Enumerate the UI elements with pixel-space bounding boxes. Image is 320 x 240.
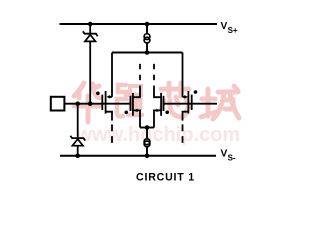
svg-text:V: V	[221, 21, 228, 32]
char qiang	[117, 85, 142, 116]
transistor Q4 (outer right)	[183, 53, 198, 143]
junction dot input/D1	[88, 101, 93, 106]
svg-text:S+: S+	[228, 26, 238, 35]
char cheng	[201, 86, 239, 119]
junction dot bus/I1	[145, 50, 150, 55]
current source I1 (top)	[144, 25, 150, 52]
input terminal square	[51, 97, 65, 111]
watermark chinese characters (background)	[74, 83, 239, 122]
label VS-	[221, 149, 236, 163]
drain bus wire	[112, 52, 183, 54]
label VS+	[221, 21, 238, 35]
junction dot rail-/D2	[75, 154, 80, 159]
junction dot common source	[145, 125, 150, 130]
junction dot input/D2	[75, 101, 80, 106]
input gate wire (to Q1,Q2 gates)	[65, 103, 131, 105]
zener diode D1 (input to VS+)	[83, 25, 98, 104]
svg-text:S-: S-	[228, 153, 236, 162]
negative supply rail VS-	[60, 155, 216, 157]
char hua	[74, 83, 100, 122]
svg-text:V: V	[221, 149, 228, 160]
svg-text:www.hqchip.com: www.hqchip.com	[76, 124, 241, 146]
junction dot rail/I1	[145, 22, 150, 27]
transistor Q1 (outer left)	[96, 53, 112, 143]
wire common source to I2	[146, 128, 148, 140]
junction dot rail/D1	[88, 22, 93, 27]
zener diode D2 (input to VS-)	[70, 104, 85, 156]
current source I2 (bottom)	[144, 139, 150, 156]
junction dot rail-/I2	[145, 154, 150, 159]
common source bar	[140, 127, 154, 129]
positive supply rail VS+	[60, 23, 218, 25]
svg-text:CIRCUIT 1: CIRCUIT 1	[136, 172, 195, 184]
char xin	[161, 83, 189, 117]
right gate wire (Q3,Q4 gates)	[163, 103, 217, 105]
transistor Q2 (inner left)	[125, 64, 141, 128]
transistor Q3 (inner right)	[154, 64, 169, 128]
